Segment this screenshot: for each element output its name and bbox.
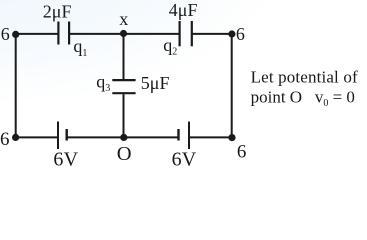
node x junction dot [120, 30, 127, 37]
node top-right junction dot [228, 30, 235, 37]
battery B2 6V long plate [188, 122, 190, 150]
battery B1 6V long plate [57, 122, 59, 150]
svg-text:4μF: 4μF [169, 0, 198, 20]
node bottom-left junction dot [12, 134, 19, 141]
svg-text:6V: 6V [172, 148, 197, 169]
svg-text:Let potential of: Let potential of [251, 67, 358, 86]
svg-text:5μF: 5μF [141, 73, 170, 93]
svg-text:2μF: 2μF [43, 2, 72, 22]
capacitor C1 2uF right plate [68, 22, 70, 45]
node top-left junction dot [12, 31, 19, 38]
capacitor C3 5uF bottom plate [112, 92, 135, 94]
svg-text:6V: 6V [53, 148, 78, 169]
wire top rail right segment [192, 33, 232, 35]
wire top rail middle-right segment [124, 33, 180, 35]
wire bottom rail left segment [16, 136, 59, 138]
background card [0, 0, 367, 169]
capacitor C2 4uF right plate [191, 21, 193, 46]
battery B2 6V short plate [177, 129, 179, 141]
wire right vertical [231, 34, 233, 137]
svg-text:6: 6 [236, 24, 245, 44]
capacitor C3 5uF top plate [112, 79, 135, 81]
svg-text:x: x [119, 9, 128, 29]
capacitor C1 2uF left plate [57, 22, 59, 45]
wire bottom rail middle segment [67, 136, 179, 138]
wire bottom rail right segment [189, 136, 232, 138]
svg-text:6: 6 [0, 129, 10, 150]
wire top rail middle-left segment [69, 33, 123, 35]
svg-text:6: 6 [1, 24, 10, 44]
wire left vertical [15, 34, 17, 137]
node O junction dot [120, 134, 127, 141]
svg-text:6: 6 [237, 142, 247, 163]
wire middle vertical upper [123, 34, 125, 79]
capacitor C2 4uF left plate [179, 21, 181, 46]
battery B1 6V short plate [65, 129, 67, 141]
wire top rail left segment [16, 33, 59, 35]
svg-text:O: O [117, 143, 132, 165]
svg-text:point O v0 = 0: point O v0 = 0 [251, 88, 355, 110]
wire middle vertical lower [123, 94, 125, 137]
node bottom-right junction dot [228, 134, 235, 141]
